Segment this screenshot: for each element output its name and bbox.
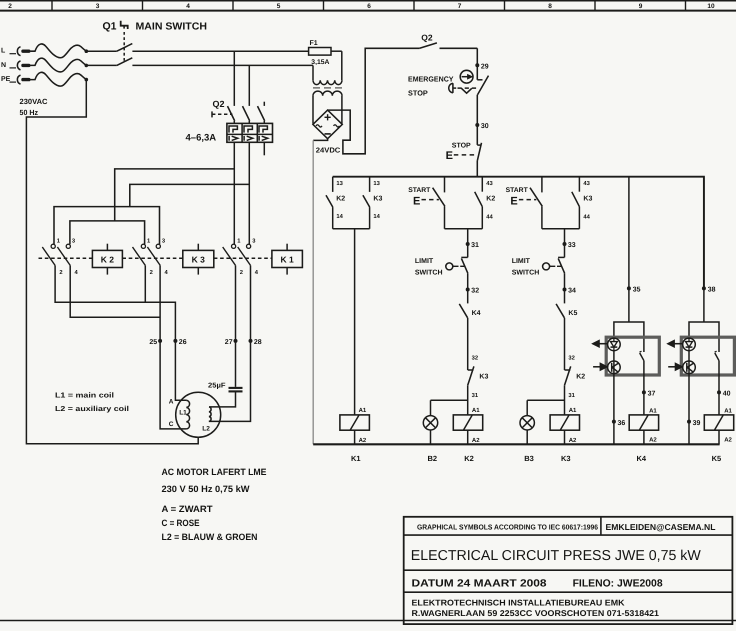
svg-text:PE: PE	[1, 76, 11, 83]
node 25	[158, 339, 162, 343]
svg-text:A = ZWART: A = ZWART	[162, 504, 213, 514]
power contact blade 3/4	[147, 247, 160, 265]
svg-text:K2: K2	[486, 195, 495, 202]
power contact blade 1/2	[133, 247, 146, 265]
Q1 linkage dashed line	[123, 32, 125, 62]
svg-text:GRAPHICAL SYMBOLS ACCORDING TO: GRAPHICAL SYMBOLS ACCORDING TO IEC 60617…	[417, 522, 598, 531]
wire rung join K4	[445, 228, 483, 230]
svg-text:A1: A1	[649, 407, 657, 414]
svg-text:A2: A2	[472, 437, 480, 444]
relay contact K4 NO	[459, 304, 467, 318]
start button rung K5	[541, 177, 543, 193]
svg-text:14: 14	[336, 214, 343, 220]
svg-text:34: 34	[568, 288, 576, 295]
sensor switch K4	[640, 353, 644, 361]
svg-text:ELEKTROTECHNISCH INSTALLATIEBU: ELEKTROTECHNISCH INSTALLATIEBUREAU EMK	[412, 597, 625, 607]
node 31	[466, 242, 470, 246]
svg-text:5: 5	[277, 3, 281, 10]
svg-text:STOP: STOP	[408, 88, 428, 97]
svg-text:3: 3	[96, 3, 100, 10]
svg-text:K5: K5	[568, 310, 577, 317]
Q1 manual handle symbol	[121, 21, 128, 29]
svg-text:DATUM 24 MAART 2008: DATUM 24 MAART 2008	[412, 578, 547, 589]
title block box	[404, 517, 733, 624]
aux contact K3 43-44	[578, 177, 580, 192]
Q2 linkage dashed line	[211, 111, 213, 117]
Q2 overload box	[227, 123, 273, 142]
svg-text:38: 38	[708, 287, 716, 294]
svg-text:K3: K3	[583, 195, 592, 202]
svg-text:4–6,3A: 4–6,3A	[186, 132, 217, 143]
sensor phototransistor K5	[683, 361, 696, 374]
svg-text:33: 33	[568, 242, 576, 249]
svg-text:4: 4	[186, 3, 190, 10]
limit switch rung K5	[558, 256, 564, 258]
power contact pin 1	[51, 244, 55, 248]
Q2 pole 3 stub	[263, 102, 265, 106]
svg-text:1: 1	[57, 238, 61, 244]
wire rectifier - output to 0V rail	[313, 139, 327, 141]
node 38	[702, 286, 706, 290]
svg-text:25µF: 25µF	[208, 382, 226, 389]
svg-text:LIMIT: LIMIT	[512, 258, 531, 265]
contactor K2 box	[92, 250, 122, 267]
svg-text:FILENO: JWE2008: FILENO: JWE2008	[573, 578, 663, 589]
junction dot PE	[85, 78, 89, 82]
svg-text:SWITCH: SWITCH	[415, 270, 443, 277]
node 32	[466, 288, 470, 292]
svg-text:31: 31	[471, 242, 479, 249]
svg-text:START: START	[408, 187, 431, 194]
svg-text:K2: K2	[336, 195, 345, 202]
svg-text:30: 30	[481, 123, 489, 130]
lamp B3	[520, 416, 534, 430]
bridge rectifier	[313, 110, 342, 139]
wire line A (pole1 to K2 pin3)	[115, 169, 235, 221]
svg-text:A2: A2	[359, 437, 367, 444]
svg-text:8: 8	[548, 3, 552, 10]
svg-text:32: 32	[472, 355, 478, 362]
wire bus drop K5	[703, 177, 705, 289]
wire rectifier + output to Q2 switch	[328, 48, 420, 154]
Q2 pole outputs down to K1 contacts	[233, 142, 235, 244]
sensor LED arrow K4	[599, 343, 608, 345]
svg-text:C: C	[169, 421, 174, 428]
svg-text:32: 32	[568, 355, 574, 362]
svg-text:K2: K2	[464, 454, 474, 463]
emergency stop mushroom head	[449, 83, 453, 93]
svg-text:40: 40	[723, 391, 731, 398]
sensor LED K4	[608, 338, 621, 351]
svg-text:44: 44	[583, 214, 590, 220]
svg-text:STOP: STOP	[452, 143, 471, 150]
svg-text:4: 4	[165, 270, 169, 276]
Q2 overload heater 2	[244, 126, 252, 133]
svg-text:L2 = auxiliary coil: L2 = auxiliary coil	[55, 404, 129, 413]
stop button NC contact	[476, 125, 478, 145]
svg-text:B3: B3	[524, 454, 534, 463]
power contact pin 3	[66, 244, 70, 248]
coil K5	[550, 415, 579, 430]
node 36	[612, 420, 616, 424]
wire rung1 join	[333, 228, 370, 230]
contactor K1 box	[272, 250, 303, 267]
limit switch rung K4	[461, 256, 467, 258]
svg-text:2: 2	[59, 269, 62, 276]
Q2 pole 3 blade	[258, 106, 265, 121]
svg-text:C = ROSE: C = ROSE	[162, 518, 200, 528]
sensor input arrow K4	[593, 366, 600, 368]
lamp B2	[423, 416, 437, 430]
node 29	[475, 63, 479, 67]
svg-text:N: N	[1, 62, 6, 69]
emergency stop release circle-arrow	[460, 70, 473, 83]
svg-text:31: 31	[568, 392, 575, 399]
coil K4	[453, 415, 482, 430]
svg-text:39: 39	[693, 420, 701, 427]
svg-text:R.WAGNERLAAN 59 2253CC VOORSCH: R.WAGNERLAAN 59 2253CC VOORSCHOTEN 071-5…	[412, 608, 660, 618]
svg-text:4: 4	[75, 270, 79, 276]
wire Q2 to emergency stop	[476, 48, 478, 65]
svg-text:K3: K3	[479, 373, 488, 380]
svg-text:A2: A2	[724, 437, 732, 444]
flexible-lead squiggle L	[31, 44, 87, 58]
motor aux coil L2	[209, 407, 211, 421]
svg-text:L2: L2	[202, 426, 210, 433]
power contact pin 3	[156, 244, 160, 248]
svg-text:24VDC: 24VDC	[316, 146, 341, 155]
switch pole N (Q1)	[88, 64, 117, 66]
svg-text:K3: K3	[561, 454, 571, 463]
svg-text:2: 2	[8, 3, 12, 10]
wire line B (pole2 branch)	[130, 184, 250, 206]
border ruler band	[0, 0, 736, 2]
svg-text:7: 7	[458, 3, 462, 10]
transformer core dashed	[313, 87, 342, 89]
Q2 overcurrent I> 3	[258, 136, 260, 141]
control bus 0V	[313, 443, 719, 445]
wire L to fuse F1	[132, 50, 308, 52]
svg-text:50 Hz: 50 Hz	[20, 108, 39, 117]
svg-text:13: 13	[336, 180, 343, 187]
svg-text:K4: K4	[637, 454, 647, 463]
Q2 overcurrent I> 1	[228, 136, 230, 141]
junction dot N	[85, 64, 89, 68]
transformer T1 primary	[313, 80, 342, 84]
wire H2 (K2-4 to node 25 column)	[70, 265, 160, 317]
node 26	[173, 339, 177, 343]
svg-text:28: 28	[254, 339, 262, 346]
node 40	[717, 390, 721, 394]
wire F1 to transformer	[341, 51, 343, 80]
wire bus drop K4	[628, 177, 630, 289]
svg-text:3,15A: 3,15A	[311, 59, 329, 66]
contactor K3 box	[183, 250, 214, 267]
Q2 overload heater 3	[259, 126, 267, 133]
wire split to sensor box K4	[614, 322, 644, 352]
svg-text:13: 13	[373, 180, 380, 187]
power contact blade 3/4	[57, 247, 70, 265]
svg-text:230 V 50 Hz 0,75 kW: 230 V 50 Hz 0,75 kW	[162, 484, 250, 494]
svg-text:K1: K1	[351, 454, 361, 463]
Q2 overcurrent I> 2	[243, 136, 245, 141]
svg-text:43: 43	[583, 180, 590, 187]
node 37	[642, 390, 646, 394]
aux contact K3 13-14	[369, 177, 371, 192]
svg-text:F1: F1	[310, 40, 318, 47]
svg-text:9: 9	[639, 3, 643, 10]
transformer T1 secondary	[313, 91, 342, 96]
svg-text:K2: K2	[576, 373, 585, 380]
node 34	[563, 288, 567, 292]
wire K1-2 down through node 27	[235, 265, 237, 341]
svg-text:START: START	[506, 187, 529, 194]
motor M1 circle	[176, 392, 221, 437]
svg-text:K 2: K 2	[101, 254, 115, 264]
power contact blade 3/4	[238, 247, 251, 265]
sensor switch K5	[715, 353, 719, 361]
svg-text:3: 3	[162, 237, 166, 244]
sensor box K5	[681, 337, 734, 375]
svg-text:1: 1	[147, 238, 151, 244]
svg-text:A1: A1	[359, 407, 367, 414]
svg-text:29: 29	[481, 63, 489, 70]
wire node27 to capacitor	[235, 341, 237, 387]
svg-text:25: 25	[149, 339, 157, 346]
svg-text:6: 6	[367, 3, 371, 10]
sensor input arrow K5	[668, 366, 675, 368]
wire stop to control bus	[476, 160, 478, 176]
svg-text:4: 4	[255, 270, 259, 276]
svg-text:K4: K4	[472, 310, 481, 317]
node 39	[687, 420, 691, 424]
Q2 overload heater 1	[229, 126, 237, 133]
svg-text:L1: L1	[179, 409, 187, 416]
svg-text:K5: K5	[712, 454, 722, 463]
node 30	[476, 95, 478, 125]
svg-text:3: 3	[72, 237, 76, 244]
wire LED to node 36	[613, 351, 615, 422]
svg-text:A: A	[169, 399, 174, 406]
Q2 pole 2 blade	[243, 106, 250, 121]
svg-text:A2: A2	[649, 437, 657, 444]
wire lamp branch B3	[527, 399, 564, 401]
svg-text:31: 31	[472, 392, 479, 399]
wire K1-4 down through node 28	[250, 265, 252, 341]
wire node26 to motor A	[175, 341, 186, 400]
bottom frame line	[0, 620, 736, 622]
Q2 pole 2 feed from N	[248, 65, 250, 106]
node 35	[627, 286, 631, 290]
sensor LED K5	[683, 338, 696, 351]
node 27	[234, 339, 238, 343]
sensor box K4	[606, 337, 659, 375]
svg-text:E: E	[510, 195, 517, 207]
svg-text:A1: A1	[724, 407, 732, 414]
wire line D (K2 pin3 / K3 pin1)	[70, 221, 145, 244]
svg-text:L: L	[1, 48, 6, 55]
svg-text:Q2: Q2	[213, 99, 225, 109]
wire node25 to motor C	[160, 341, 186, 429]
svg-text:27: 27	[225, 339, 233, 346]
svg-text:3: 3	[252, 237, 256, 244]
power contact blade 1/2	[223, 247, 236, 265]
svg-text:43: 43	[486, 180, 493, 187]
svg-text:MAIN SWITCH: MAIN SWITCH	[136, 22, 208, 33]
coil K5	[704, 415, 733, 430]
svg-text:Q2: Q2	[421, 33, 433, 43]
svg-text:A2: A2	[569, 437, 577, 444]
interlock NC contact K2	[565, 369, 571, 371]
svg-text:230VAC: 230VAC	[20, 97, 49, 106]
svg-text:AC MOTOR LAFERT LME: AC MOTOR LAFERT LME	[162, 467, 267, 477]
svg-text:2: 2	[240, 269, 243, 276]
svg-text:LIMIT: LIMIT	[415, 258, 434, 265]
wire N to transformer	[132, 64, 313, 66]
wire H1 (K2-2 / K3-2 to node 26)	[55, 265, 175, 341]
svg-text:SWITCH: SWITCH	[512, 270, 540, 277]
switch pole L (Q1)	[88, 50, 117, 52]
node 28	[249, 339, 253, 343]
flexible-lead squiggle N	[31, 58, 87, 72]
coil K4	[629, 415, 658, 430]
wire PE to motor frame	[26, 80, 198, 444]
sensor LED arrow K5	[674, 343, 683, 345]
wire line C (K2 pin1 / K3 pin3)	[54, 207, 160, 245]
emergency stop NC contact	[477, 79, 482, 81]
svg-text:Q1: Q1	[103, 21, 117, 33]
svg-text:32: 32	[471, 288, 479, 295]
wire lamp branch B2	[431, 399, 468, 401]
Q2 pole 1 blade	[228, 106, 235, 121]
svg-text:E: E	[446, 150, 453, 162]
flexible-lead squiggle PE	[31, 72, 87, 86]
svg-text:K3: K3	[373, 195, 382, 202]
power contact pin 1	[141, 244, 145, 248]
coil K1	[340, 415, 370, 430]
svg-text:L1 = main coil: L1 = main coil	[55, 391, 114, 400]
svg-text:26: 26	[179, 339, 187, 346]
svg-text:A1: A1	[569, 407, 577, 414]
svg-text:A1: A1	[472, 407, 480, 414]
wire split to sensor box K5	[689, 322, 719, 352]
power contact pin 3	[247, 244, 251, 248]
svg-text:E: E	[413, 195, 420, 207]
svg-text:K 3: K 3	[192, 254, 206, 264]
svg-text:K 1: K 1	[280, 254, 294, 264]
power contact blade 1/2	[42, 247, 55, 265]
svg-text:35: 35	[633, 287, 641, 294]
wire rung join K5	[542, 228, 580, 230]
svg-text:B2: B2	[428, 454, 438, 463]
contactor linkage dashed line	[39, 257, 93, 259]
svg-text:ELECTRICAL CIRCUIT PRESS JWE 0: ELECTRICAL CIRCUIT PRESS JWE 0,75 kW	[411, 548, 701, 564]
power contact pin 1	[232, 244, 236, 248]
wire K3-4 down through node 25	[159, 265, 161, 341]
svg-text:44: 44	[486, 214, 493, 220]
svg-text:10: 10	[707, 3, 715, 10]
emergency stop dashed link + release chevron	[458, 87, 478, 89]
interlock NC contact K3	[468, 369, 474, 371]
svg-text:36: 36	[618, 420, 626, 427]
sensor phototransistor K4	[608, 361, 621, 374]
relay contact K5 NO	[556, 304, 564, 318]
start button rung K4	[444, 177, 446, 193]
svg-text:EMERGENCY: EMERGENCY	[408, 74, 454, 83]
svg-text:EMKLEIDEN@CASEMA.NL: EMKLEIDEN@CASEMA.NL	[606, 522, 716, 532]
svg-text:L2 = BLAUW & GROEN: L2 = BLAUW & GROEN	[162, 532, 258, 542]
svg-text:2: 2	[150, 269, 153, 276]
svg-text:1: 1	[237, 238, 241, 244]
aux contact K2 43-44	[481, 177, 483, 192]
svg-text:37: 37	[648, 391, 656, 398]
wire LED to node 39	[688, 351, 690, 422]
svg-text:14: 14	[373, 214, 380, 220]
aux contact K2 13-14	[332, 177, 334, 192]
motor main coil L1	[186, 400, 189, 429]
control bus +24V	[333, 177, 704, 289]
junction dot L	[85, 49, 89, 53]
wire node28 to motor L2 bottom	[209, 341, 251, 422]
Q2 pole 1 feed from L	[233, 51, 235, 106]
node 33	[563, 242, 567, 246]
